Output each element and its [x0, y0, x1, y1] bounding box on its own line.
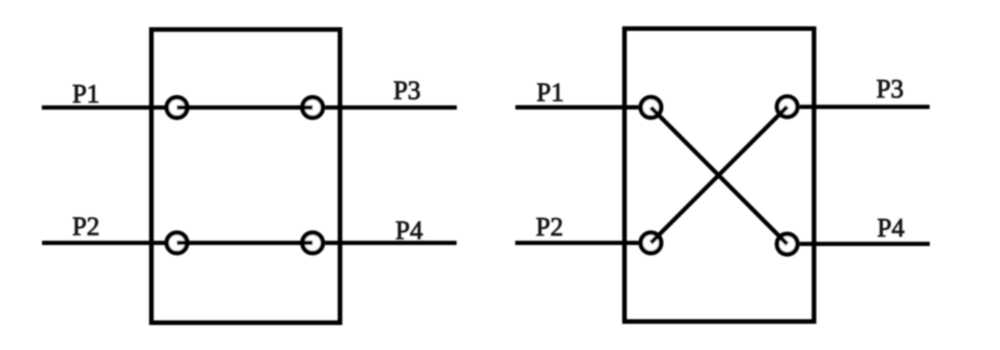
svg-text:P2: P2: [72, 212, 99, 241]
wire P1 lead (right diagram): [515, 105, 638, 109]
switch box U2 (cross state): [625, 29, 815, 322]
wire P2 lead (left diagram): [42, 241, 165, 245]
port terminal circle P1 (bar state): [167, 97, 187, 117]
wire P2 lead (right diagram): [515, 241, 638, 245]
wire P1 lead (left diagram): [42, 105, 165, 109]
wire P4 lead (right diagram): [800, 242, 930, 246]
wire P1-P4 cross connection: [651, 107, 787, 244]
port terminal circle P3 (cross state): [777, 97, 797, 117]
port terminal circle P4 (bar state): [302, 233, 322, 253]
port terminal circle P4 (cross state): [777, 234, 797, 254]
port terminal circle P1 (cross state): [641, 97, 661, 117]
svg-text:P4: P4: [395, 216, 422, 245]
port terminal circle P2 (bar state): [167, 233, 187, 253]
svg-text:P4: P4: [877, 214, 904, 243]
wire P2-P3 cross connection: [651, 107, 787, 243]
port terminal circle P2 (cross state): [641, 233, 661, 253]
svg-text:P3: P3: [393, 76, 420, 105]
wire P3 lead (left diagram): [325, 105, 457, 109]
svg-text:P3: P3: [876, 75, 903, 104]
svg-text:P2: P2: [536, 213, 563, 242]
wire P1-P3 straight connection: [177, 105, 313, 109]
wire P2-P4 straight connection: [177, 241, 313, 245]
svg-text:P1: P1: [72, 80, 99, 109]
switch box U1 (bar state): [151, 30, 340, 323]
svg-text:P1: P1: [537, 78, 564, 107]
wire P3 lead (right diagram): [800, 105, 930, 109]
port terminal circle P3 (bar state): [302, 97, 322, 117]
wire P4 lead (left diagram): [325, 241, 457, 245]
